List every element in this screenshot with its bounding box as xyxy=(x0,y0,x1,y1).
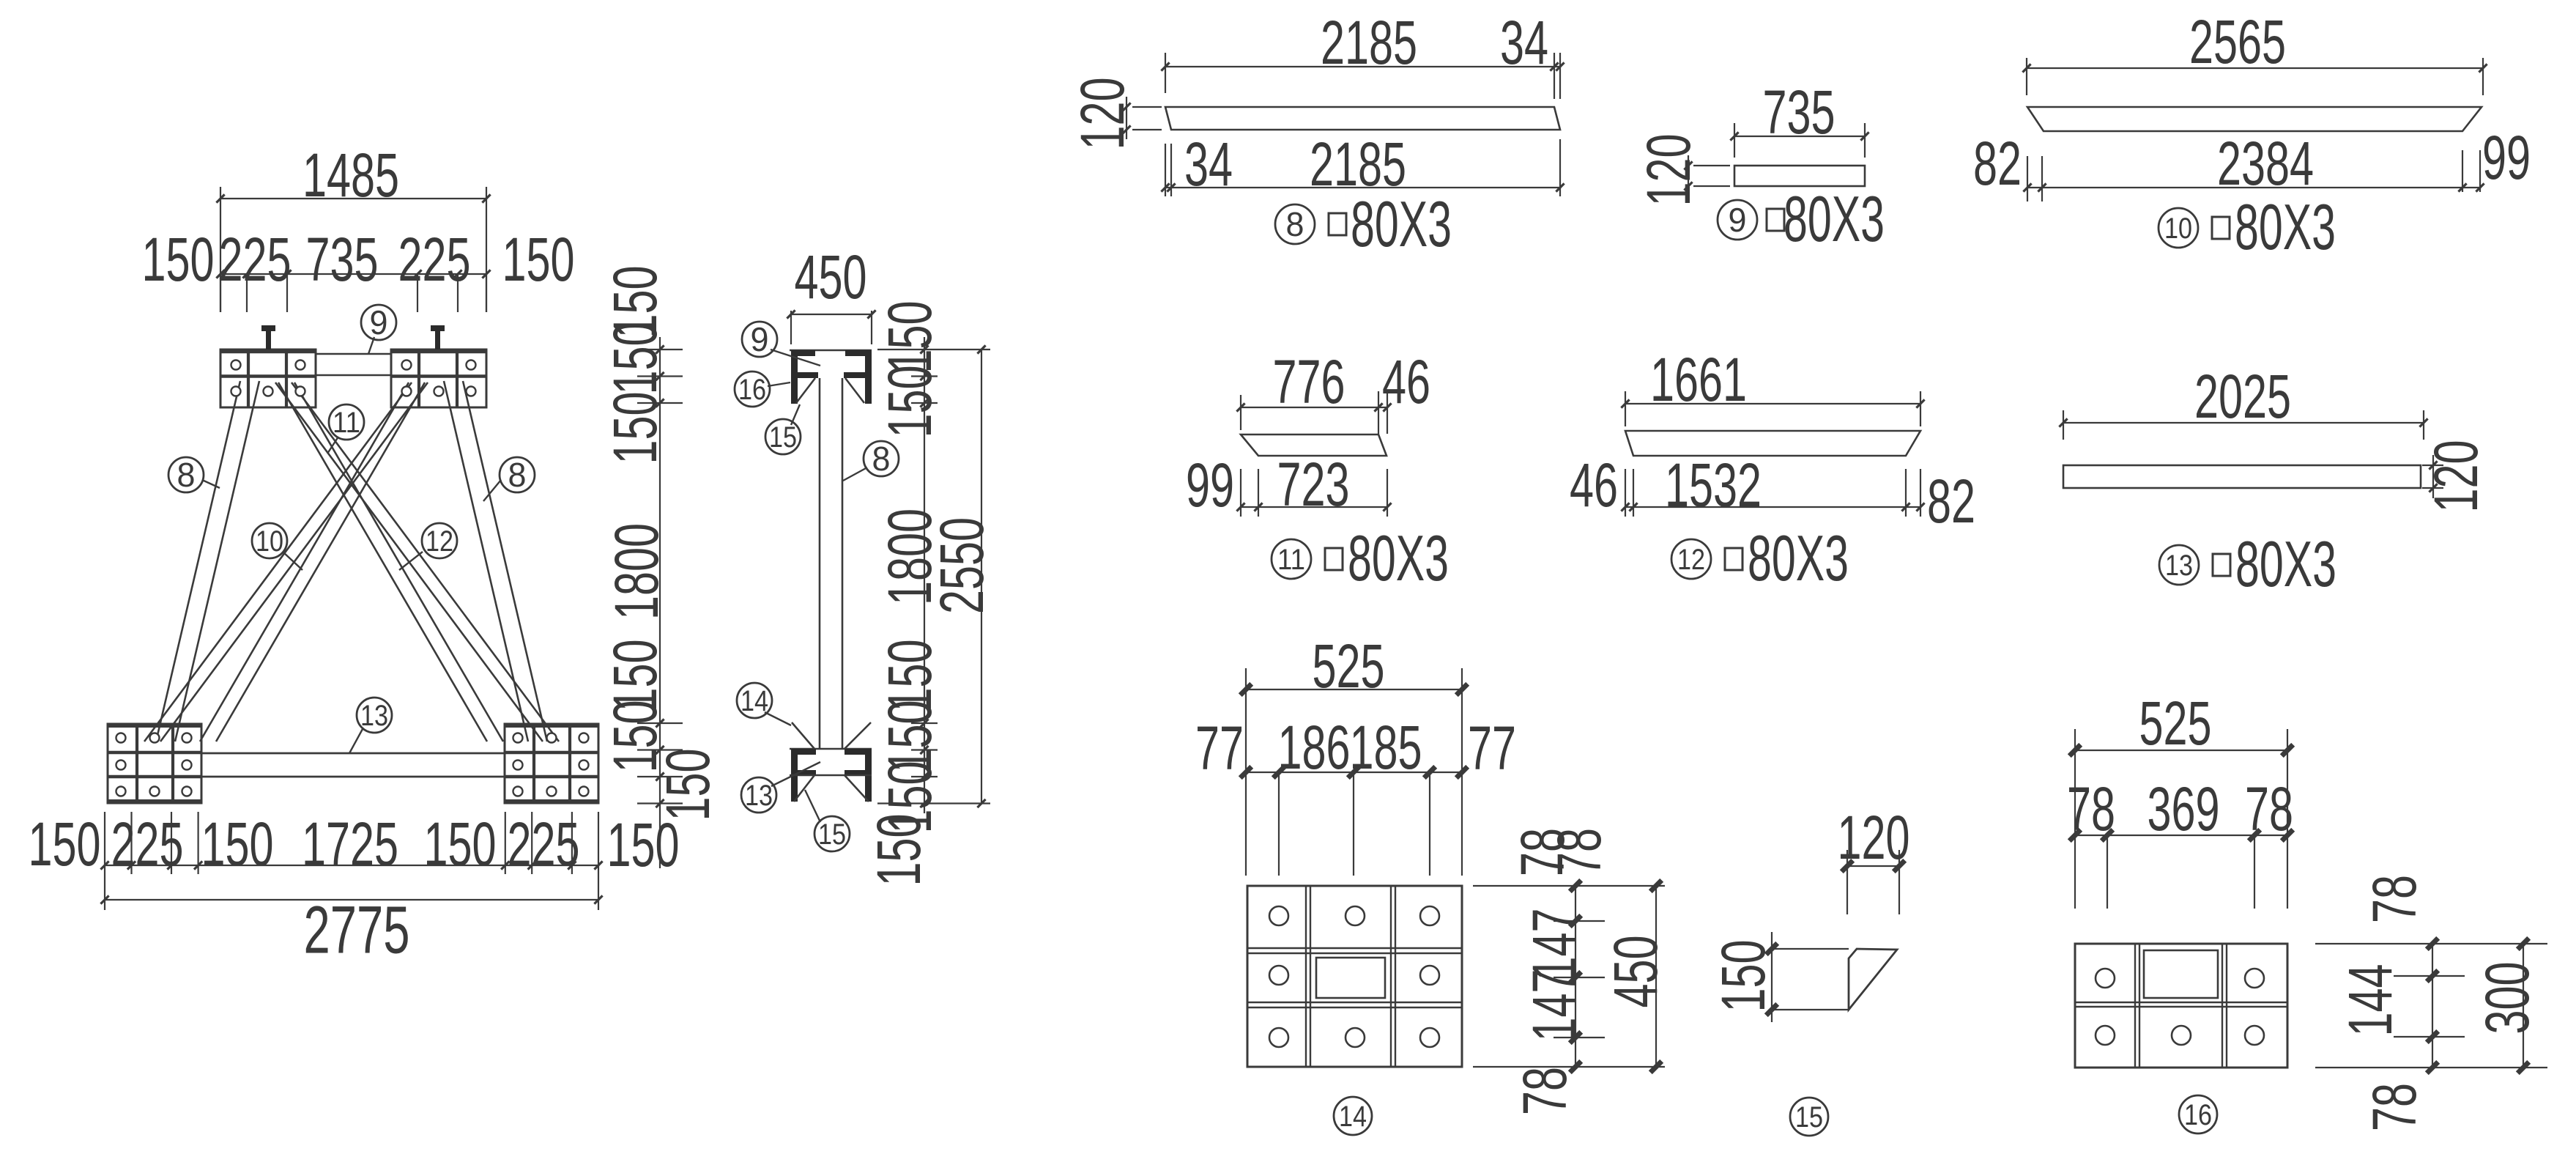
detail 16 right dim chain 78/144/78 xyxy=(2315,943,2547,944)
section leader 16 xyxy=(768,382,790,386)
detail 14 dim row 77/186/185/77 xyxy=(1246,772,1462,773)
svg-text:12: 12 xyxy=(1677,544,1705,576)
top-left gusset plate cluster xyxy=(220,349,316,407)
label 8 left xyxy=(202,480,220,488)
svg-text:150: 150 xyxy=(653,749,722,821)
dim row 150/225/150/1725/150/225/150 bottom xyxy=(105,865,598,866)
label 10 xyxy=(283,552,302,570)
svg-text:150: 150 xyxy=(864,814,933,887)
detail 14 label xyxy=(1334,1097,1372,1135)
svg-text:8: 8 xyxy=(872,440,891,478)
svg-text:147: 147 xyxy=(1520,969,1589,1042)
svg-text:1532: 1532 xyxy=(1665,451,1762,519)
detail 10 bottom dims 82/2384/99 xyxy=(2027,156,2028,201)
svg-text:776: 776 xyxy=(1273,347,1345,416)
detail 10 bar xyxy=(2027,107,2482,131)
detail 14 bolt holes xyxy=(1269,906,1288,925)
svg-text:16: 16 xyxy=(738,374,766,406)
svg-text:14: 14 xyxy=(1339,1101,1367,1133)
detail 16 label xyxy=(2179,1095,2217,1133)
svg-text:82: 82 xyxy=(1973,129,2022,198)
svg-text:1485: 1485 xyxy=(302,141,399,210)
svg-text:150: 150 xyxy=(142,225,215,294)
svg-text:150: 150 xyxy=(29,810,101,879)
dim row 150/225/735/225/150 top xyxy=(220,273,486,275)
detail 12 label xyxy=(1671,539,1711,579)
svg-text:80X3: 80X3 xyxy=(1783,182,1885,255)
svg-text:525: 525 xyxy=(1313,632,1385,700)
svg-text:150: 150 xyxy=(201,810,274,879)
svg-text:2025: 2025 xyxy=(2194,362,2291,431)
detail 14 dim 450 xyxy=(1655,886,1657,1067)
svg-text:80X3: 80X3 xyxy=(1748,522,1849,594)
svg-text:15: 15 xyxy=(1795,1101,1823,1133)
label 12 xyxy=(399,552,423,570)
svg-text:735: 735 xyxy=(306,225,379,294)
svg-text:14: 14 xyxy=(740,685,768,717)
svg-text:225: 225 xyxy=(398,225,471,294)
svg-text:150: 150 xyxy=(875,301,944,374)
svg-text:9: 9 xyxy=(1729,201,1747,239)
svg-text:82: 82 xyxy=(1927,467,1975,536)
detail 13 bar xyxy=(2063,465,2421,488)
svg-text:11: 11 xyxy=(333,407,360,439)
svg-text:78: 78 xyxy=(2067,774,2115,843)
svg-text:1661: 1661 xyxy=(1650,345,1747,414)
member 9 top chord tube xyxy=(316,353,391,355)
detail 15 dim 120 xyxy=(1846,850,1848,914)
svg-text:144: 144 xyxy=(2336,964,2405,1037)
svg-text:2565: 2565 xyxy=(2189,7,2286,76)
svg-text:80X3: 80X3 xyxy=(1351,188,1452,260)
svg-text:16: 16 xyxy=(2184,1099,2212,1131)
svg-text:77: 77 xyxy=(1195,714,1244,783)
svg-text:99: 99 xyxy=(2482,123,2531,192)
svg-text:150: 150 xyxy=(1709,940,1778,1013)
svg-text:77: 77 xyxy=(1468,714,1516,783)
svg-text:46: 46 xyxy=(1570,451,1618,519)
detail 11 bar xyxy=(1241,434,1387,456)
svg-text:10: 10 xyxy=(256,525,283,558)
svg-text:78: 78 xyxy=(1545,828,1614,876)
svg-text:34: 34 xyxy=(1500,8,1548,77)
svg-text:150: 150 xyxy=(424,810,497,879)
svg-text:2550: 2550 xyxy=(927,517,996,614)
detail 16 dim row 78/369/78 xyxy=(2075,835,2287,836)
brace 11 diagonal (top-left to bottom-right) xyxy=(275,382,543,741)
svg-text:150: 150 xyxy=(875,366,944,438)
svg-text:735: 735 xyxy=(1763,78,1836,147)
section leader 13 xyxy=(771,762,820,786)
svg-text:1800: 1800 xyxy=(602,523,671,620)
detail 8 bottom dims 34/2185 xyxy=(1165,144,1166,196)
detail 15 dim 150 xyxy=(1772,948,1849,950)
brace 8 left outer leg xyxy=(156,381,240,741)
detail 11 bottom dims 99/723 xyxy=(1240,469,1241,517)
detail 12 bottom dims 46/1532/82 xyxy=(1625,469,1626,517)
svg-text:450: 450 xyxy=(795,243,867,311)
detail 16 dim 300 xyxy=(2523,944,2524,1068)
section leader 8 xyxy=(843,467,867,481)
detail 16 dim 525 top xyxy=(2074,729,2076,909)
member 13 bottom chord tube xyxy=(201,752,505,755)
detail 14 right dim chain 78/147/147/78 xyxy=(1473,885,1665,887)
svg-text:13: 13 xyxy=(745,780,773,812)
svg-text:120: 120 xyxy=(1634,134,1703,207)
svg-text:186: 186 xyxy=(1278,713,1351,782)
detail 10 label xyxy=(2159,208,2198,248)
svg-text:150: 150 xyxy=(601,392,669,465)
svg-text:12: 12 xyxy=(426,525,453,558)
detail 13 label xyxy=(2159,545,2199,585)
detail 16 bolt holes xyxy=(2096,969,2115,988)
svg-text:300: 300 xyxy=(2473,962,2542,1035)
detail 12 top dim 1661 xyxy=(1625,391,1626,426)
top-right gusset plate cluster xyxy=(391,349,486,407)
svg-text:13: 13 xyxy=(2165,550,2193,582)
svg-text:10: 10 xyxy=(2164,212,2192,245)
elevation right dim chain 150/150/1800/150/150/150 xyxy=(659,337,661,868)
section leader 15 bottom xyxy=(805,790,820,822)
brace 10 diagonal (top-right to bottom-left) xyxy=(200,382,409,741)
detail 9 label xyxy=(1718,200,1757,240)
svg-text:150: 150 xyxy=(502,225,575,294)
detail 8 dim 120 xyxy=(1132,106,1162,108)
svg-text:120: 120 xyxy=(1838,803,1910,872)
brace 8 right outer leg xyxy=(444,381,528,741)
detail 12 bar xyxy=(1625,431,1920,456)
svg-text:225: 225 xyxy=(508,810,580,879)
anchor bolt right xyxy=(431,325,445,331)
detail 9 dim 120 xyxy=(1693,165,1730,166)
detail 8 label xyxy=(1275,204,1315,244)
svg-text:1725: 1725 xyxy=(302,810,398,879)
svg-text:34: 34 xyxy=(1184,130,1233,199)
bottom-left base plate cluster xyxy=(108,724,201,803)
svg-text:225: 225 xyxy=(111,810,184,879)
svg-text:9: 9 xyxy=(751,320,769,358)
brace 12 diagonal (top-left to bottom-right) xyxy=(278,382,487,741)
svg-text:80X3: 80X3 xyxy=(2235,528,2336,600)
detail 9 bar xyxy=(1734,166,1865,186)
svg-text:78: 78 xyxy=(2245,774,2293,843)
svg-text:99: 99 xyxy=(1186,451,1234,519)
detail 11 label xyxy=(1272,539,1311,579)
svg-text:225: 225 xyxy=(219,225,292,294)
detail 9 dim 735 xyxy=(1734,123,1735,158)
detail 10 dim 2565 xyxy=(2026,58,2027,95)
svg-text:185: 185 xyxy=(1350,713,1422,782)
dim 450 section top xyxy=(790,311,792,344)
svg-text:13: 13 xyxy=(360,700,388,732)
svg-text:120: 120 xyxy=(1068,78,1137,150)
svg-text:450: 450 xyxy=(1601,936,1670,1008)
section bottom assembly (members 13/14/15) xyxy=(790,748,872,750)
svg-text:525: 525 xyxy=(2139,689,2212,758)
section leader 9 xyxy=(771,349,820,366)
section cap assembly (members 9/15/16) xyxy=(790,349,872,352)
label 9 top chord xyxy=(368,337,374,354)
detail 8 top dims 2185/34 xyxy=(1165,53,1166,93)
dim 1485 total top xyxy=(220,187,221,312)
section leader 14 xyxy=(765,712,791,725)
svg-text:150: 150 xyxy=(601,322,669,395)
section right dim chain xyxy=(924,337,925,813)
label 13 bottom chord xyxy=(349,729,363,753)
section web member 8 xyxy=(819,378,821,749)
svg-text:78: 78 xyxy=(1510,1067,1579,1115)
label 11 xyxy=(327,437,338,454)
svg-text:80X3: 80X3 xyxy=(2235,191,2336,263)
svg-text:46: 46 xyxy=(1382,347,1430,416)
detail 13 dim 2025 xyxy=(2063,410,2064,440)
svg-text:78: 78 xyxy=(2360,1083,2429,1131)
detail 16 plate 2x3 xyxy=(2075,944,2287,1068)
detail 13 dim 120 xyxy=(2422,465,2443,466)
detail 14 plate 3x3 xyxy=(1247,886,1462,1067)
svg-text:80X3: 80X3 xyxy=(1348,522,1449,594)
dim 2775 total bottom xyxy=(105,899,598,900)
svg-text:78: 78 xyxy=(2360,875,2429,923)
label 8 right xyxy=(483,480,501,501)
svg-text:723: 723 xyxy=(1277,450,1350,519)
svg-text:15: 15 xyxy=(769,421,797,454)
brace 11 mirror diagonal (top-right to bottom-left) xyxy=(144,382,412,741)
svg-text:9: 9 xyxy=(370,303,388,341)
section total dim 2550 xyxy=(981,349,982,804)
bottom-right base plate cluster xyxy=(505,724,598,803)
detail 16 center hole xyxy=(2144,950,2218,998)
svg-text:369: 369 xyxy=(2148,774,2220,843)
detail 8 bar xyxy=(1165,107,1560,130)
svg-text:8: 8 xyxy=(508,456,527,494)
svg-text:8: 8 xyxy=(1286,205,1304,243)
detail 15 triangle xyxy=(1849,949,1897,1010)
detail 14 center hole xyxy=(1316,958,1385,998)
section leader 15 top xyxy=(791,404,800,425)
svg-text:2185: 2185 xyxy=(1321,8,1417,77)
svg-text:8: 8 xyxy=(177,456,196,494)
svg-text:15: 15 xyxy=(818,818,846,851)
svg-text:2775: 2775 xyxy=(304,893,410,968)
svg-text:120: 120 xyxy=(2421,440,2490,513)
svg-text:2384: 2384 xyxy=(2217,129,2314,198)
svg-text:11: 11 xyxy=(1277,544,1305,576)
anchor bolt left xyxy=(261,325,275,331)
detail 14 dim 525 top xyxy=(1245,668,1247,769)
detail 11 top dims 776/46 xyxy=(1240,395,1241,430)
detail 15 label xyxy=(1790,1098,1828,1136)
